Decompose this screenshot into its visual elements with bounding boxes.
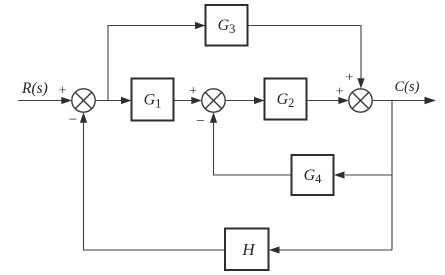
wire input R(s) to summing junction 1 — [18, 100, 63, 102]
arrowhead into summing junction 2 bottom — [210, 112, 217, 123]
arrowhead into summing junction 1 — [61, 97, 72, 104]
svg-text:H: H — [241, 240, 256, 259]
arrowhead output C(s) — [425, 97, 437, 105]
wire G3 to summing junction 3 — [248, 26, 361, 82]
block G3 — [206, 5, 248, 46]
arrowhead into summing junction 2 — [191, 97, 202, 104]
summing junction S2 — [202, 89, 225, 112]
arrowhead into summing junction 3 top — [357, 78, 364, 89]
wire branch up to G3 — [108, 26, 197, 101]
arrowhead into H — [269, 246, 280, 253]
wire feedback to H — [277, 249, 392, 251]
svg-text:−: − — [69, 112, 77, 128]
summing junction S1 — [72, 89, 95, 112]
block G4 — [292, 155, 334, 195]
wire G1 to summing junction 2 — [174, 100, 195, 102]
block G1 — [132, 79, 174, 121]
wire G2 to summing junction 3 — [307, 100, 342, 102]
block H — [225, 229, 269, 271]
wire feedback to G4 — [345, 174, 392, 176]
wire summing junction 1 to G1 — [95, 100, 123, 102]
svg-text:−: − — [196, 114, 204, 130]
wire summing junction 2 to G2 — [225, 100, 256, 102]
arrowhead into summing junction 3 left — [338, 97, 349, 104]
summing junction S3 — [349, 89, 372, 112]
arrowhead into G1 — [121, 97, 132, 104]
svg-text:+: + — [346, 70, 354, 85]
arrowhead into G3 — [195, 22, 206, 29]
svg-text:R(s): R(s) — [21, 80, 48, 97]
arrowhead into G2 — [254, 97, 265, 104]
svg-text:+: + — [58, 83, 66, 98]
wire G4 to summing junction 2 — [214, 120, 292, 175]
svg-text:+: + — [336, 84, 344, 99]
arrowhead into summing junction 1 bottom — [80, 112, 87, 123]
block G2 — [265, 79, 307, 120]
arrowhead into G4 — [334, 171, 345, 178]
wire feedback vertical from output — [391, 101, 393, 251]
wire H to summing junction 1 — [84, 120, 226, 250]
wire output to C(s) — [372, 100, 427, 102]
svg-text:+: + — [189, 84, 197, 99]
svg-text:C(s): C(s) — [395, 79, 420, 95]
